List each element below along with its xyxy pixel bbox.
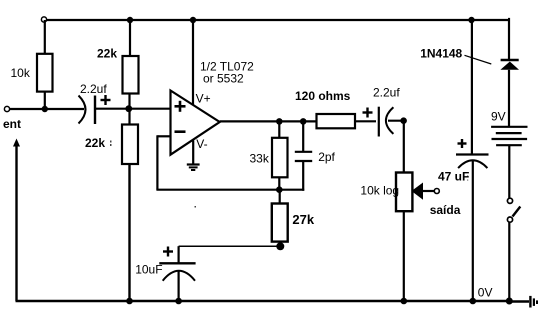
resistor R5 27k	[272, 204, 315, 242]
wire 22k R2 top lead	[129, 20, 131, 56]
ground symbol bottom right	[530, 296, 537, 308]
wire 10k bottom lead	[44, 92, 46, 110]
svg-text:22k: 22k	[97, 47, 117, 61]
svg-text:10k log: 10k log	[360, 184, 399, 198]
junction dot 27k / 10uF	[276, 242, 284, 250]
resistor R6 120 ohms	[295, 89, 355, 128]
wire 47uF top lead from rail	[471, 20, 473, 154]
switch S1	[507, 198, 520, 222]
node open terminal at top-left of rail	[41, 17, 46, 22]
capacitor C4 10uF	[135, 247, 195, 281]
diode D1 1N4148	[420, 47, 519, 70]
wire V- supply pin	[193, 137, 207, 164]
wire switch to ground rail	[508, 222, 510, 301]
potentiometer VR1 10k log	[360, 173, 434, 212]
wire op-amp output	[220, 120, 317, 122]
wire 22k R3 bottom lead to ground rail	[128, 164, 130, 301]
wire pot top lead	[403, 121, 405, 173]
svg-text:V-: V-	[196, 137, 207, 151]
junction dot rail at 47uF	[470, 298, 477, 305]
wire top supply rail	[45, 19, 509, 21]
battery BT1 9V	[491, 110, 528, 146]
node output terminal saida	[430, 189, 461, 218]
svg-text:2.2uf: 2.2uf	[80, 82, 107, 96]
junction dot feedback / 33k / 27k	[276, 186, 283, 193]
wire 27k top lead	[279, 190, 281, 204]
svg-text:V+: V+	[196, 92, 211, 106]
junction dot output at 33k	[276, 118, 283, 125]
wire inverting input stub	[157, 135, 170, 137]
wire 2pf bottom lead	[302, 162, 304, 191]
wire 10uF top stub	[178, 246, 180, 263]
svg-text:120 ohms: 120 ohms	[295, 89, 351, 103]
junction dot rail at 10uF	[175, 298, 182, 305]
ground arrow on input shield	[13, 139, 20, 302]
wire stub to chassis ground	[509, 300, 529, 302]
resistor R4 33k	[250, 138, 288, 178]
resistor R3 22k lower	[85, 125, 138, 165]
svg-text:saída: saída	[430, 203, 461, 217]
svg-text::: :	[467, 173, 470, 183]
wire 47uF bottom lead	[472, 161, 474, 301]
junction dot top rail at V+ column	[190, 17, 196, 23]
wire feedback bottom horizontal	[156, 189, 304, 191]
junction dot input/10k	[42, 106, 48, 112]
svg-text:27k: 27k	[292, 212, 314, 227]
capacitor C1 2.2uf	[79, 82, 111, 124]
svg-text:ent: ent	[3, 117, 21, 131]
wire 22k R3 top lead	[128, 109, 130, 125]
svg-text:2pf: 2pf	[318, 150, 335, 164]
svg-text:or 5532: or 5532	[203, 72, 244, 86]
wire pot bottom lead	[403, 211, 405, 301]
junction dot top rail at 47uF column	[468, 17, 474, 23]
junction dot noninverting node	[125, 105, 132, 112]
wire 22k R2 bottom lead	[128, 94, 130, 111]
svg-text:1N4148: 1N4148	[420, 47, 462, 61]
junction dot top rail at 22k column	[127, 17, 133, 23]
wire 33k top lead	[278, 121, 280, 138]
wire cap C2 to pot node	[388, 120, 405, 122]
wire feedback left vertical	[156, 135, 158, 189]
svg-text:47 uF: 47 uF	[438, 170, 469, 184]
wire 10uF to 27k horizontal	[179, 245, 281, 247]
junction dot rail at 22k	[126, 298, 133, 305]
resistor R1 10k	[11, 54, 53, 92]
wire rail corner to diode	[508, 19, 509, 60]
wire bottom ground rail	[16, 300, 510, 302]
wire cap C1 to op-amp + input	[96, 108, 171, 110]
wire input to cap C1	[10, 108, 84, 110]
svg-text:2.2uf: 2.2uf	[373, 86, 400, 100]
resistor R2 22k upper	[97, 47, 139, 94]
stray mark colon near lower 22k	[110, 141, 112, 143]
junction dot rail at battery column	[506, 298, 513, 305]
wire 10uF bottom lead	[178, 272, 180, 302]
svg-text:10uF: 10uF	[135, 263, 162, 277]
wire 33k bottom lead	[278, 177, 280, 190]
wire 2pf top lead	[302, 121, 304, 151]
wire 120 ohms to cap C2	[355, 120, 376, 122]
capacitor C5 47uF	[438, 139, 489, 184]
wire battery to switch	[508, 145, 510, 198]
op-amp U1 1/2 TL072 or 5532	[171, 60, 255, 155]
junction dot pot top node	[400, 117, 407, 124]
stray dot near feedback	[195, 206, 197, 208]
capacitor C2 2.2uf output	[363, 86, 401, 137]
junction dot rail at pot	[401, 298, 408, 305]
wire 10k top lead	[44, 20, 46, 54]
capacitor C3 2pf	[295, 150, 336, 164]
svg-text:22k: 22k	[85, 136, 105, 150]
node input terminal ent	[3, 106, 21, 131]
svg-text:33k: 33k	[250, 152, 270, 166]
wire 27k bottom lead	[279, 242, 281, 247]
svg-text:0V: 0V	[478, 286, 493, 300]
svg-text:9V: 9V	[491, 110, 506, 124]
ground symbol under V-	[187, 165, 200, 171]
wire diode to battery	[508, 70, 510, 127]
svg-text:10k: 10k	[11, 66, 31, 80]
junction dot output at 2pf	[300, 118, 307, 125]
wire V+ supply pin	[193, 20, 211, 106]
